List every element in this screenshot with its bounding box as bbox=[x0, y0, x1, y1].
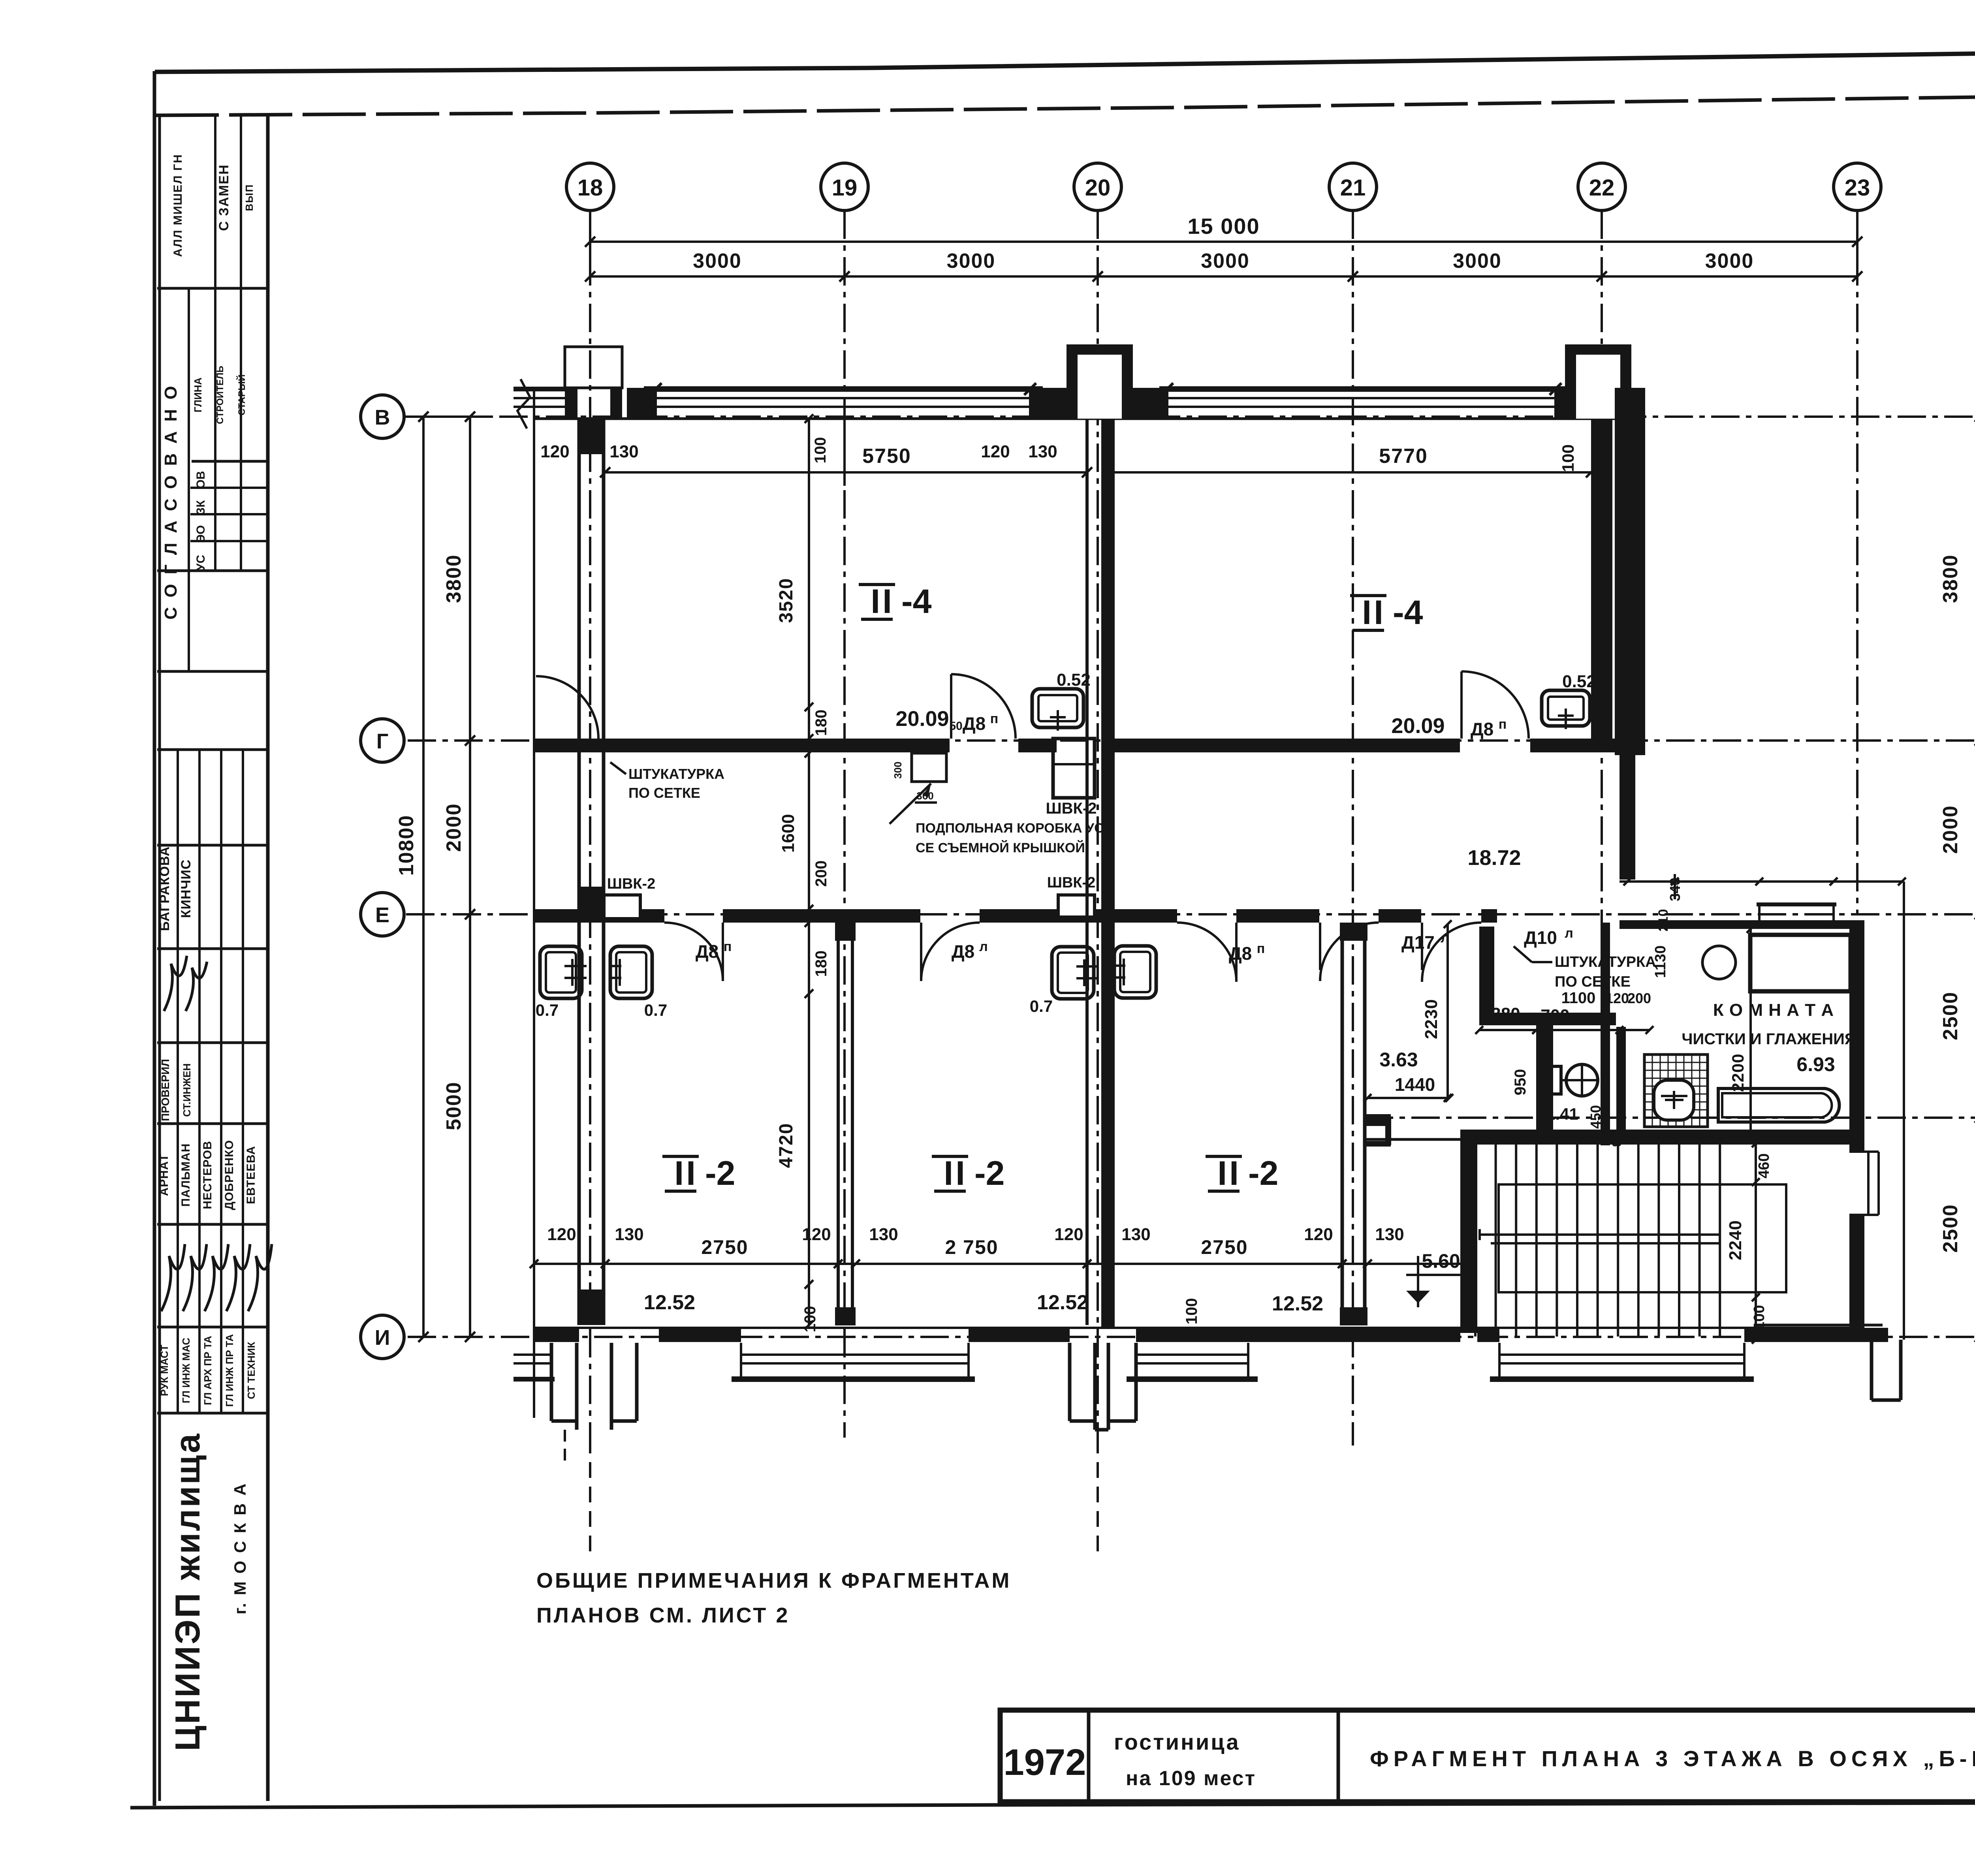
svg-text:130: 130 bbox=[1121, 1225, 1150, 1244]
svg-text:18: 18 bbox=[577, 175, 603, 201]
corridor wall axis Е bbox=[534, 909, 664, 923]
svg-text:СТАРЫЙ: СТАРЫЙ bbox=[236, 374, 247, 415]
svg-text:С ЗАМЕН: С ЗАМЕН bbox=[216, 164, 231, 231]
stair treads bbox=[1474, 1143, 1477, 1337]
svg-text:6.93: 6.93 bbox=[1796, 1053, 1835, 1075]
partition on axis 21 bbox=[1341, 923, 1344, 1325]
svg-text:ПО СЕТКЕ: ПО СЕТКЕ bbox=[628, 785, 700, 801]
svg-text:ОБЩИЕ ПРИМЕЧАНИЯ К ФРАГМЕНТАМ: ОБЩИЕ ПРИМЕЧАНИЯ К ФРАГМЕНТАМ bbox=[536, 1569, 1011, 1592]
svg-text:15 000: 15 000 bbox=[1187, 214, 1260, 239]
svg-text:ГЛ ИНЖ ПР ТА: ГЛ ИНЖ ПР ТА bbox=[224, 1334, 235, 1407]
svg-text:200: 200 bbox=[1627, 990, 1651, 1006]
right outer wall of lower section bbox=[1849, 920, 1864, 1152]
small floor box detail bbox=[912, 753, 946, 782]
svg-text:2 750: 2 750 bbox=[945, 1236, 998, 1258]
dim 15000 overall bbox=[590, 241, 1857, 243]
svg-text:-2: -2 bbox=[974, 1154, 1004, 1192]
svg-text:Д17: Д17 bbox=[1401, 932, 1435, 953]
dim line y2600 bbox=[1479, 1029, 1650, 1031]
title block frame bbox=[1000, 1710, 1975, 1802]
bottom window room1 bbox=[732, 1376, 975, 1382]
sink upper band at axis 20 bbox=[1032, 689, 1083, 727]
svg-text:450: 450 bbox=[1588, 1105, 1604, 1129]
svg-text:г. М О С К В А: г. М О С К В А bbox=[231, 1482, 249, 1614]
shaft stub above axis 22 bbox=[1565, 344, 1576, 419]
svg-text:-2: -2 bbox=[705, 1154, 735, 1192]
stair handrail bbox=[1491, 1233, 1720, 1236]
pier below axis 18 bbox=[550, 1343, 553, 1421]
sink upper band at axis 22 bbox=[1542, 690, 1590, 726]
svg-text:II: II bbox=[944, 1154, 967, 1192]
door Д10л bbox=[1422, 923, 1481, 982]
ШВК-2 box on Е wall mid bbox=[1058, 895, 1095, 917]
svg-text:ШТУКАТУРКА: ШТУКАТУРКА bbox=[628, 766, 724, 782]
inner frame left bbox=[153, 71, 156, 1806]
svg-text:90: 90 bbox=[1610, 1133, 1624, 1147]
svg-text:ФРАГМЕНТ ПЛАНА 3 ЭТАЖА В ОСЯ: ФРАГМЕНТ ПЛАНА 3 ЭТАЖА В ОСЯХ „Б-И , 18-… bbox=[1370, 1746, 1975, 1771]
svg-text:12.52: 12.52 bbox=[1272, 1292, 1323, 1315]
svg-text:180: 180 bbox=[813, 710, 830, 736]
svg-text:на 109 мест: на 109 мест bbox=[1126, 1767, 1256, 1790]
wall on axis 22 upper bbox=[1591, 419, 1612, 741]
wall on axis 20 bbox=[1085, 419, 1089, 1325]
svg-text:п: п bbox=[990, 711, 999, 726]
svg-text:Г: Г bbox=[376, 729, 389, 753]
svg-text:II: II bbox=[1362, 594, 1386, 632]
axis 19 bbox=[843, 211, 846, 1438]
svg-text:Д8: Д8 bbox=[696, 941, 719, 962]
door Д8п on Г wall room1 bbox=[951, 674, 1016, 739]
svg-text:380: 380 bbox=[1491, 1004, 1520, 1024]
svg-text:ПАЛЬМАН: ПАЛЬМАН bbox=[179, 1143, 192, 1207]
svg-text:ДОБРЕНКО: ДОБРЕНКО bbox=[223, 1140, 236, 1210]
partition on axis 19 bbox=[837, 923, 840, 1325]
svg-text:ЭО: ЭО bbox=[194, 525, 207, 543]
svg-text:2000: 2000 bbox=[442, 803, 465, 852]
washing machine circle bbox=[1702, 946, 1736, 979]
svg-text:ПО СЕТКЕ: ПО СЕТКЕ bbox=[1555, 974, 1631, 990]
dim 5770 room2 bbox=[1108, 471, 1591, 474]
svg-text:3800: 3800 bbox=[442, 554, 465, 603]
svg-text:2750: 2750 bbox=[1201, 1236, 1248, 1258]
svg-text:К О М Н А Т А: К О М Н А Т А bbox=[1713, 1000, 1834, 1020]
dims 460 2240 100 near stair bbox=[1755, 1143, 1757, 1340]
dim 2200 rotated bbox=[1749, 929, 1752, 1140]
door Д8л room П-2 #2 bbox=[921, 923, 980, 981]
axis В bbox=[406, 415, 1975, 418]
dim ticks above cleaning room bbox=[1623, 878, 1631, 885]
corridor end wall right bbox=[1619, 753, 1635, 880]
svg-text:КИНЧИС: КИНЧИС bbox=[179, 859, 194, 918]
stairwell inner rect bbox=[1499, 1184, 1786, 1292]
dim 3800/2000/5000 left bbox=[469, 417, 471, 1337]
svg-text:130: 130 bbox=[609, 442, 638, 461]
svg-text:100: 100 bbox=[1183, 1298, 1200, 1325]
svg-text:18.72: 18.72 bbox=[1467, 846, 1521, 870]
cleaning room top wall (Е segment right) bbox=[1619, 920, 1862, 929]
svg-text:0.52: 0.52 bbox=[1562, 672, 1596, 691]
svg-text:0.7: 0.7 bbox=[536, 1001, 559, 1019]
svg-text:1.41: 1.41 bbox=[1546, 1105, 1578, 1123]
svg-text:3000: 3000 bbox=[1201, 250, 1250, 273]
corridor wall axis Г bbox=[534, 739, 950, 752]
door Д8п room П-2 #1 bbox=[664, 923, 723, 981]
axis 22 bbox=[1601, 211, 1603, 1145]
svg-text:-4: -4 bbox=[901, 583, 932, 620]
svg-text:2230: 2230 bbox=[1422, 999, 1441, 1039]
svg-text:ОВ: ОВ bbox=[194, 471, 207, 489]
svg-text:ГЛИНА: ГЛИНА bbox=[192, 377, 204, 412]
svg-text:0.52: 0.52 bbox=[1057, 670, 1091, 690]
svg-text:РУК МАСТ: РУК МАСТ bbox=[158, 1345, 170, 1396]
svg-text:1440: 1440 bbox=[1395, 1074, 1435, 1095]
svg-text:19: 19 bbox=[832, 175, 858, 201]
svg-text:130: 130 bbox=[615, 1225, 643, 1244]
svg-text:2000: 2000 bbox=[1939, 805, 1962, 854]
door arc at corridor left end bbox=[536, 676, 598, 739]
axis Г bbox=[408, 739, 1975, 742]
svg-text:12.52: 12.52 bbox=[1037, 1291, 1088, 1314]
window 2 on axis В bbox=[1159, 386, 1566, 392]
svg-text:гостиница: гостиница bbox=[1114, 1729, 1240, 1754]
svg-text:200: 200 bbox=[813, 861, 830, 887]
svg-text:Д8: Д8 bbox=[952, 941, 974, 962]
svg-text:0.7: 0.7 bbox=[1030, 997, 1053, 1015]
jog horizontal wall y~2580 bbox=[1479, 1013, 1616, 1025]
svg-text:И: И bbox=[375, 1326, 390, 1350]
svg-text:100: 100 bbox=[801, 1306, 819, 1333]
axis 21 bbox=[1352, 211, 1354, 1446]
svg-text:21: 21 bbox=[1340, 175, 1366, 201]
svg-text:ШТУКАТУРКА: ШТУКАТУРКА bbox=[1555, 954, 1656, 970]
svg-text:100: 100 bbox=[1559, 444, 1577, 472]
shower bowl bbox=[1654, 1080, 1694, 1120]
bottom window continuation left of cut bbox=[513, 1353, 553, 1356]
svg-text:5000: 5000 bbox=[442, 1081, 465, 1130]
svg-text:п: п bbox=[1499, 717, 1507, 732]
svg-text:0.7: 0.7 bbox=[644, 1001, 667, 1019]
svg-text:10800: 10800 bbox=[395, 815, 418, 876]
outer top border bbox=[155, 44, 1975, 72]
balcony door sill marks on right wall bbox=[1867, 1152, 1870, 1215]
svg-text:1972: 1972 bbox=[1003, 1741, 1086, 1783]
svg-text:п: п bbox=[724, 939, 732, 954]
svg-text:НЕСТЕРОВ: НЕСТЕРОВ bbox=[201, 1141, 214, 1209]
svg-text:120: 120 bbox=[547, 1225, 576, 1244]
svg-text:120: 120 bbox=[981, 442, 1010, 461]
ШВК-2 box on Е wall left bbox=[604, 895, 640, 919]
svg-text:180: 180 bbox=[813, 951, 830, 977]
axis Ж bbox=[1365, 1117, 1975, 1119]
svg-text:2240: 2240 bbox=[1726, 1220, 1745, 1260]
svg-text:4720: 4720 bbox=[776, 1123, 797, 1168]
door Д8п room П-2 #3 bbox=[1177, 923, 1236, 982]
svg-text:130: 130 bbox=[1375, 1225, 1404, 1244]
shaft stub above axis 20 bbox=[1066, 344, 1078, 419]
WC cubicle right / axis22 lower wall bbox=[1601, 923, 1610, 1145]
svg-text:ШВК-2: ШВК-2 bbox=[607, 876, 656, 892]
svg-text:п: п bbox=[1257, 941, 1265, 956]
svg-text:23: 23 bbox=[1845, 175, 1870, 201]
svg-text:12.52: 12.52 bbox=[644, 1291, 695, 1314]
svg-text:120: 120 bbox=[1304, 1225, 1333, 1244]
svg-text:2200: 2200 bbox=[1729, 1053, 1747, 1092]
dim 1440 bbox=[1367, 1097, 1449, 1099]
sinks lower band axis 18 bbox=[540, 946, 582, 998]
svg-text:ВЫП: ВЫП bbox=[243, 184, 255, 211]
wall below Е at x3745 (jog) bbox=[1479, 927, 1494, 1025]
svg-text:3800: 3800 bbox=[1939, 554, 1962, 603]
svg-text:Е: Е bbox=[375, 903, 389, 927]
svg-text:ЗК: ЗК bbox=[194, 500, 207, 515]
bottom window at stair bbox=[1490, 1376, 1754, 1382]
fragment cut line left bbox=[533, 389, 535, 1418]
svg-text:УС: УС bbox=[194, 555, 207, 571]
svg-text:1100: 1100 bbox=[1561, 989, 1596, 1007]
dim 10800 left bbox=[422, 417, 425, 1337]
svg-text:5.60: 5.60 bbox=[1422, 1250, 1460, 1272]
svg-text:90: 90 bbox=[1724, 1130, 1738, 1144]
svg-text:50: 50 bbox=[949, 720, 962, 733]
svg-text:120: 120 bbox=[802, 1225, 831, 1244]
sinks lower band axis 20 bbox=[1052, 947, 1094, 999]
svg-text:л: л bbox=[979, 939, 988, 954]
svg-text:100: 100 bbox=[812, 437, 829, 464]
dim 5750 room1 bbox=[605, 471, 1087, 474]
ШВК-2 box on Г wall bbox=[1053, 739, 1095, 798]
axis 23 bbox=[1856, 211, 1858, 914]
svg-text:В: В bbox=[375, 406, 390, 429]
axis 18 bbox=[589, 211, 591, 1438]
svg-text:20.09: 20.09 bbox=[1391, 714, 1445, 738]
window 1 on axis В bbox=[644, 386, 1043, 392]
svg-text:130: 130 bbox=[1028, 442, 1057, 461]
svg-text:АЛЛ МИШЕЛ ГН: АЛЛ МИШЕЛ ГН bbox=[171, 154, 184, 257]
svg-text:СЕ СЪЕМНОЙ КРЫШКОЙ: СЕ СЪЕМНОЙ КРЫШКОЙ bbox=[916, 840, 1085, 855]
svg-text:ГЛ АРХ ПР ТА: ГЛ АРХ ПР ТА bbox=[202, 1336, 214, 1405]
right wall x~4160 from В to Г bbox=[1599, 419, 1602, 742]
shaft stub above axis 18 bbox=[565, 347, 622, 388]
svg-text:ЦНИИЭП жилища: ЦНИИЭП жилища bbox=[168, 1432, 207, 1751]
svg-text:ПЛАНОВ СМ. ЛИСТ 2: ПЛАНОВ СМ. ЛИСТ 2 bbox=[536, 1603, 790, 1627]
svg-text:22: 22 bbox=[1589, 175, 1615, 201]
svg-text:2500: 2500 bbox=[1939, 1204, 1962, 1253]
bottom outer wall axis И bbox=[534, 1328, 579, 1342]
svg-text:СТРОИТЕЛЬ: СТРОИТЕЛЬ bbox=[215, 366, 226, 424]
svg-text:120: 120 bbox=[1536, 1044, 1551, 1067]
svg-text:3.63: 3.63 bbox=[1379, 1049, 1418, 1071]
pier below axis 20 bbox=[1068, 1343, 1072, 1421]
left strip frame bbox=[266, 114, 270, 1801]
svg-text:БАГРАКОВА: БАГРАКОВА bbox=[157, 846, 172, 931]
WC toilet bbox=[1566, 1064, 1598, 1096]
window continuation left of fragment cut bbox=[513, 387, 565, 391]
door Д17л bbox=[1320, 923, 1379, 981]
svg-text:5770: 5770 bbox=[1379, 445, 1428, 468]
svg-text:СТ ТЕХНИК: СТ ТЕХНИК bbox=[245, 1342, 257, 1399]
svg-text:л: л bbox=[1565, 926, 1573, 941]
svg-text:20: 20 bbox=[1085, 175, 1111, 201]
svg-text:3000: 3000 bbox=[693, 250, 742, 273]
svg-text:3520: 3520 bbox=[776, 578, 797, 623]
svg-text:120: 120 bbox=[540, 442, 569, 461]
svg-text:130: 130 bbox=[869, 1225, 898, 1244]
svg-text:-2: -2 bbox=[1248, 1154, 1278, 1192]
inner frame top bbox=[156, 89, 1975, 115]
svg-text:100: 100 bbox=[1751, 1305, 1768, 1330]
wall on axis 18 bbox=[577, 419, 581, 1325]
vertical dim chain x2048 bbox=[808, 419, 810, 1325]
axis Е bbox=[406, 913, 1975, 915]
bathtub bbox=[1718, 1088, 1839, 1122]
svg-text:Д8: Д8 bbox=[1471, 719, 1493, 739]
dim line above cleaning room y2232 bbox=[1619, 880, 1904, 883]
table rect bbox=[1750, 935, 1851, 991]
top outer wall on axis В bbox=[534, 417, 1643, 420]
door Д8п on Г wall room2 bbox=[1461, 671, 1529, 739]
svg-text:Д10: Д10 bbox=[1524, 927, 1557, 948]
stair north wall on axis Ж bbox=[1460, 1130, 1862, 1145]
svg-text:ЧИСТКИ И ГЛАЖЕНИЯ: ЧИСТКИ И ГЛАЖЕНИЯ bbox=[1682, 1030, 1856, 1048]
bottom window room3 bbox=[1127, 1376, 1258, 1382]
dim 2230 rotated bbox=[1446, 924, 1449, 1098]
dim 3000 chain bbox=[590, 275, 1857, 278]
window in cleaning room top wall bbox=[1757, 902, 1836, 906]
svg-text:3000: 3000 bbox=[1705, 250, 1754, 273]
dim 2750 lines bbox=[534, 1263, 1461, 1265]
svg-text:ЕВТЕЕВА: ЕВТЕЕВА bbox=[245, 1146, 258, 1204]
svg-text:3000: 3000 bbox=[1453, 250, 1502, 273]
svg-text:460: 460 bbox=[1756, 1153, 1772, 1178]
shower tray hatched bbox=[1644, 1055, 1708, 1127]
svg-text:ШВК-2: ШВК-2 bbox=[1046, 800, 1097, 817]
svg-text:120: 120 bbox=[1054, 1225, 1083, 1244]
outer dim line right x4820 bbox=[1903, 882, 1905, 1340]
svg-text:ГЛ ИНЖ МАС: ГЛ ИНЖ МАС bbox=[180, 1338, 192, 1404]
svg-text:20.09: 20.09 bbox=[895, 707, 949, 731]
svg-text:ПОДПОЛЬНАЯ КОРОБКА УС: ПОДПОЛЬНАЯ КОРОБКА УС bbox=[916, 821, 1104, 836]
axis И bbox=[408, 1336, 1975, 1338]
svg-text:Д8: Д8 bbox=[1229, 943, 1252, 964]
inner frame bottom bbox=[130, 1802, 1975, 1808]
svg-text:1600: 1600 bbox=[779, 814, 798, 853]
pier below right wall end bbox=[1870, 1340, 1873, 1400]
svg-text:II: II bbox=[674, 1154, 698, 1192]
svg-text:3000: 3000 bbox=[947, 250, 996, 273]
svg-text:II: II bbox=[1217, 1154, 1241, 1192]
stair west wall bbox=[1460, 1130, 1477, 1333]
jog near 5.60 landing bbox=[1365, 1114, 1391, 1126]
svg-text:-4: -4 bbox=[1393, 594, 1423, 632]
svg-text:950: 950 bbox=[1512, 1069, 1529, 1096]
svg-text:АРНАТ: АРНАТ bbox=[158, 1154, 171, 1196]
svg-text:5750: 5750 bbox=[862, 445, 911, 468]
svg-text:ПРОВЕРИЛ: ПРОВЕРИЛ bbox=[159, 1059, 171, 1121]
axis 20 bbox=[1097, 211, 1099, 1446]
svg-text:С О Г Л А С О В А Н О: С О Г Л А С О В А Н О bbox=[161, 383, 181, 619]
WC cubicle left wall bbox=[1536, 1025, 1553, 1130]
svg-text:300: 300 bbox=[892, 761, 904, 778]
svg-text:II: II bbox=[871, 583, 894, 620]
svg-text:120: 120 bbox=[1605, 990, 1629, 1006]
svg-text:Д8: Д8 bbox=[963, 713, 986, 734]
svg-text:2750: 2750 bbox=[701, 1236, 748, 1258]
svg-text:2500: 2500 bbox=[1939, 991, 1962, 1040]
svg-text:700: 700 bbox=[1540, 1006, 1569, 1025]
svg-text:210: 210 bbox=[1656, 909, 1671, 932]
svg-text:1130: 1130 bbox=[1652, 946, 1669, 978]
svg-text:СТ.ИНЖЕН: СТ.ИНЖЕН bbox=[181, 1063, 193, 1117]
